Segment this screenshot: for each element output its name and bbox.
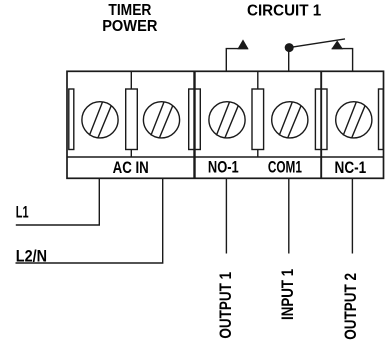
screw terminal 2 bbox=[143, 102, 179, 138]
svg-text:POWER: POWER bbox=[102, 18, 157, 35]
clamp plate at divider 1 bbox=[126, 89, 138, 150]
wire INPUT 1 down bbox=[288, 178, 290, 253]
wire NO-1 up bbox=[226, 49, 248, 72]
cell divider 1 (AC IN internal) bbox=[130, 71, 132, 157]
screw-area bottom line / label row top bbox=[67, 156, 384, 158]
clamp plate at block boundary 2 bbox=[189, 89, 201, 150]
wire L1 bbox=[16, 178, 100, 225]
NC contact triangle bbox=[332, 41, 342, 49]
svg-text:L2/N: L2/N bbox=[16, 247, 47, 266]
NO contact triangle bbox=[238, 40, 248, 49]
svg-text:L1: L1 bbox=[16, 203, 29, 222]
clamp plate at divider 3 bbox=[252, 89, 264, 150]
wire L2/N bbox=[16, 178, 163, 263]
wire OUTPUT 2 down bbox=[351, 178, 353, 253]
relay pivot bbox=[285, 43, 294, 52]
screw terminal 3 bbox=[209, 102, 245, 138]
svg-text:AC IN: AC IN bbox=[113, 159, 149, 177]
svg-text:CIRCUIT 1: CIRCUIT 1 bbox=[247, 2, 322, 19]
clamp plate at left edge bbox=[69, 89, 74, 150]
svg-text:COM1: COM1 bbox=[268, 158, 302, 176]
thick block boundary (AC IN | NO-1) bbox=[193, 71, 195, 178]
wire NC-1 up bbox=[332, 49, 353, 72]
svg-text:OUTPUT 1: OUTPUT 1 bbox=[216, 272, 235, 339]
screw terminal 4 bbox=[272, 102, 308, 138]
clamp plate at block boundary 4 bbox=[315, 89, 327, 150]
terminal block outer box bbox=[67, 71, 384, 178]
svg-text:TIMER: TIMER bbox=[108, 2, 151, 19]
screw terminal 5 bbox=[336, 102, 372, 138]
svg-text:INPUT 1: INPUT 1 bbox=[278, 269, 297, 320]
wire OUTPUT 1 down bbox=[225, 178, 227, 253]
label TIMER POWER bbox=[102, 2, 157, 35]
svg-text:OUTPUT 2: OUTPUT 2 bbox=[341, 273, 360, 340]
screw terminal 1 bbox=[82, 102, 118, 138]
clamp plate at right edge bbox=[379, 89, 384, 150]
wire COM1 up bbox=[288, 48, 290, 71]
cell divider 3 (NO-1 / COM1) bbox=[257, 71, 259, 157]
thick block boundary (COM1 | NC-1) bbox=[320, 71, 322, 178]
relay arm bbox=[289, 39, 345, 48]
svg-text:NO-1: NO-1 bbox=[208, 158, 239, 176]
svg-text:NC-1: NC-1 bbox=[335, 159, 367, 177]
